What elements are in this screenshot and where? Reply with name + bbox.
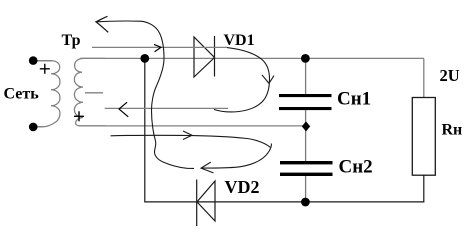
diode VD2 triangle (points left) [197,181,215,221]
capacitor Cн2 top plate [280,161,333,164]
svg-text:Сн2: Сн2 [339,157,373,178]
polarity + on secondary bottom [74,111,84,121]
node: mains bottom terminal dot [29,123,38,132]
svg-text:Тр: Тр [62,32,81,49]
diode VD1 triangle [194,37,215,77]
polarity + on primary top [40,64,50,74]
current arrow: big left arrowhead top-left [96,16,108,32]
diode VD1 cathode bar [214,36,216,77]
capacitor Cн2 bottom plate [280,173,333,176]
current loop: bottom edge continuing right with left arrowhead [201,144,272,169]
wire: top rail y=58 from secondary top lead to right corner [80,57,424,59]
wire: secondary bottom lead to capacitor midpoint y=126 [79,125,305,127]
node A: junction dot secondary top / VD1 anode / VD2 branch [140,54,149,63]
wire: midpoint dot to Cn2 top plate [305,127,307,161]
transformer Tp primary winding [37,61,60,127]
wire: node A vertical down to VD2 and bottom rail to resistor [145,58,424,202]
svg-text:2U: 2U [440,66,460,85]
terminal: mains bottom terminal wire [35,126,43,128]
wire: Cn1 bottom plate to midpoint dot [305,110,307,126]
current arrow: right arrowhead on loop top edge [183,131,192,140]
current arrow: left arrowhead on return line [119,102,128,117]
node: capacitor midpoint dot [302,121,310,131]
node: top rail capacitor branch dot [301,54,310,63]
current loop: top edge y=135 with right arrowhead closing at right [111,135,271,147]
terminal: mains top terminal wire [35,60,52,62]
capacitor Cн1 bottom plate [279,107,332,110]
current arrow line: straight segment above top rail through VD1 [92,46,227,48]
node: bottom rail capacitor branch dot [301,198,310,207]
current arrow: left arrowhead on loop bottom edge [201,162,214,173]
capacitor Cн1 top plate [279,94,332,97]
wire: secondary centre tap stub [85,92,103,94]
resistor Rn rectangle [412,98,435,176]
svg-text:VD2: VD2 [225,177,260,197]
transformer Tp secondary winding [74,58,105,126]
diode VD2 cathode bar [196,180,198,227]
current path curve: VD1 output curling down to Cn1 with down arrowhead [214,48,270,112]
wire: Cn2 bottom plate to bottom rail [305,176,307,202]
wire: right vertical from top rail down to resistor top [423,58,425,97]
current arrow: right arrowhead on that line [154,44,161,51]
current path curve: long loop from top-left arrow down left side and along bottom [96,21,194,168]
svg-text:Сеть: Сеть [4,86,40,103]
svg-text:Сн1: Сн1 [337,89,371,110]
wire: capacitor branch stub dot to Cn1 top plate [305,58,307,94]
svg-text:Rн: Rн [442,122,463,139]
current arrow line: straight return segment y=108 [105,107,228,109]
current arrow: downward arrowhead at Cn1 branch [262,75,274,84]
svg-text:VD1: VD1 [224,32,255,49]
node: mains top terminal dot [29,56,38,65]
